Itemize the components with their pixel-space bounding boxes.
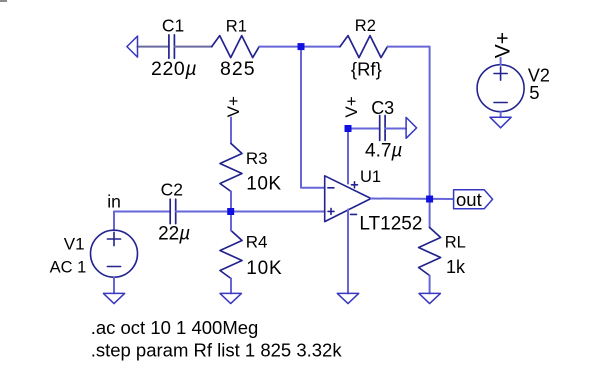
resistor R3 [220,144,242,192]
svg-text:10K: 10K [246,173,281,194]
wire out node to RL [429,199,431,228]
op-amp U1 [325,176,371,222]
resistor R4 [220,231,242,279]
wire V+ flag to V2 top [500,58,502,65]
svg-text:V+: V+ [491,32,514,58]
voltage source V2 [477,65,524,112]
svg-text:R3: R3 [246,149,268,168]
svg-text:C2: C2 [161,180,183,200]
junction mid node [227,208,234,215]
capacitor C3 [380,116,385,141]
capacitor C2 [170,199,176,223]
capacitor C1 [169,35,175,58]
port out [454,190,493,209]
svg-text:5: 5 [529,82,539,103]
svg-text:R2: R2 [355,17,376,35]
svg-text:.ac oct 10 1 400Meg: .ac oct 10 1 400Meg [91,317,259,338]
svg-text:out: out [456,189,482,210]
ground under op-amp [337,293,358,303]
ground under V2 [490,117,511,128]
wire V+ flag to R3 [230,118,232,144]
svg-text:220µ: 220µ [151,58,197,80]
svg-text:V+: V+ [224,96,243,117]
resistor R1 [212,36,260,58]
wire V1 to in node [113,212,115,231]
svg-text:{Rf}: {Rf} [351,58,382,79]
svg-text:LT1252: LT1252 [359,213,422,234]
wire R4 to ground [230,279,232,294]
wire R1 to R2 through node [259,46,340,48]
svg-text:C1: C1 [162,16,184,36]
svg-text:825: 825 [220,58,256,80]
wire V+ node to op-amp top [347,129,349,184]
svg-text:R1: R1 [226,18,247,36]
svg-text:22µ: 22µ [158,223,190,244]
ground under R4 [220,293,241,303]
wire C2 to op-amp plus input [176,211,325,213]
svg-text:4.7µ: 4.7µ [365,140,402,161]
svg-text:V+: V+ [342,96,361,117]
wire top rail left: arrow to C1 [138,46,169,48]
wire C1 to R1 [174,46,211,48]
wire R2 right down to output node [388,47,430,199]
junction output node [426,196,433,203]
wire C3 to right ground flag [385,128,406,130]
ground under RL [419,293,440,303]
junction feedback node [298,43,305,50]
svg-text:AC 1: AC 1 [50,259,87,277]
ground under V1 [103,293,124,303]
voltage source V1 [91,230,138,277]
svg-text:R4: R4 [246,233,268,252]
svg-text:U1: U1 [360,168,381,186]
svg-text:V1: V1 [64,235,85,254]
resistor RL [419,228,441,276]
svg-text:1k: 1k [446,257,466,277]
wire V+ node to C3 [348,128,380,130]
wire in node to C2 [114,211,170,213]
svg-text:.step param Rf list 1 825 3.32: .step param Rf list 1 825 3.32k [91,339,343,360]
ground flag left-pointing at top-left [127,36,138,57]
wire V2 bottom to ground [500,112,502,118]
wire R3 to mid node [230,192,232,212]
svg-text:in: in [107,191,121,211]
wire V1 bottom to ground [113,277,115,293]
ground flag right-pointing after C3 [406,117,417,138]
wire node to R4 [230,212,232,231]
wire feedback node down to op-amp minus input [301,47,325,188]
wire op-amp output to out node [371,198,453,201]
resistor R2 [340,36,388,58]
wire op-amp bottom to ground [347,210,349,294]
svg-text:10K: 10K [246,258,282,279]
wire RL to ground [429,276,431,294]
svg-text:RL: RL [445,234,466,252]
svg-text:C3: C3 [371,98,394,118]
junction V+ supply node [345,125,352,132]
